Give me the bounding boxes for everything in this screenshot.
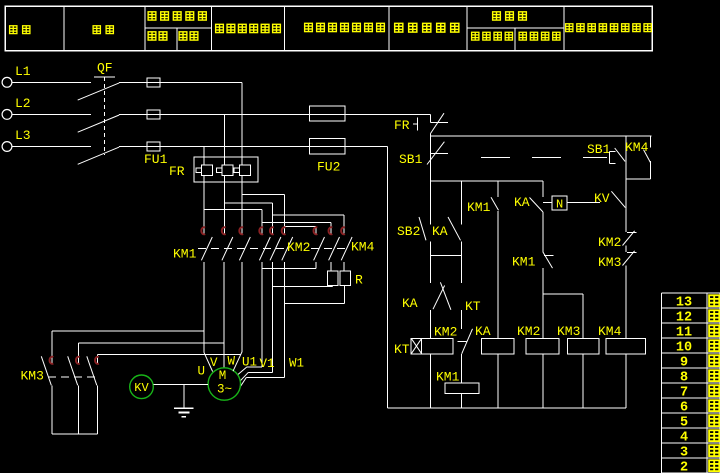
svg-text:KM1: KM1 bbox=[512, 255, 536, 270]
svg-text:KA: KA bbox=[402, 296, 418, 311]
svg-text:L2: L2 bbox=[15, 96, 31, 111]
svg-text:3~: 3~ bbox=[217, 383, 232, 397]
svg-text:SB2: SB2 bbox=[397, 224, 420, 239]
svg-text:M: M bbox=[219, 369, 227, 383]
svg-text:KM3: KM3 bbox=[557, 324, 580, 339]
svg-text:10: 10 bbox=[676, 341, 692, 356]
svg-text:KM2: KM2 bbox=[287, 240, 310, 255]
svg-text:KM1: KM1 bbox=[436, 370, 460, 385]
svg-text:KM3: KM3 bbox=[598, 255, 621, 270]
svg-text:6: 6 bbox=[680, 401, 688, 416]
svg-text:3: 3 bbox=[680, 446, 688, 461]
svg-text:N: N bbox=[556, 198, 563, 212]
svg-text:R: R bbox=[355, 273, 363, 288]
svg-text:8: 8 bbox=[680, 371, 688, 386]
svg-text:V1: V1 bbox=[260, 357, 275, 371]
svg-text:9: 9 bbox=[680, 356, 688, 371]
svg-text:SB1: SB1 bbox=[399, 152, 423, 167]
svg-text:U1: U1 bbox=[242, 356, 257, 370]
svg-text:FU1: FU1 bbox=[144, 152, 168, 167]
svg-text:KM1: KM1 bbox=[173, 247, 197, 262]
svg-text:L3: L3 bbox=[15, 128, 31, 143]
svg-text:KM1: KM1 bbox=[467, 200, 491, 215]
svg-text:KM2: KM2 bbox=[517, 324, 540, 339]
svg-text:KT: KT bbox=[465, 299, 481, 314]
svg-text:L1: L1 bbox=[15, 64, 31, 79]
svg-text:KM4: KM4 bbox=[351, 240, 375, 255]
svg-text:QF: QF bbox=[97, 61, 113, 76]
svg-text:12: 12 bbox=[676, 311, 692, 326]
svg-text:KA: KA bbox=[514, 195, 530, 210]
svg-text:KM4: KM4 bbox=[598, 324, 622, 339]
svg-text:W1: W1 bbox=[289, 357, 304, 371]
svg-text:KA: KA bbox=[432, 224, 448, 239]
svg-text:KM3: KM3 bbox=[21, 369, 44, 384]
svg-text:V: V bbox=[210, 356, 218, 370]
svg-text:KM2: KM2 bbox=[434, 325, 457, 340]
svg-text:FR: FR bbox=[394, 118, 410, 133]
svg-text:U: U bbox=[198, 365, 206, 379]
svg-text:5: 5 bbox=[680, 416, 688, 431]
svg-text:KV: KV bbox=[594, 191, 610, 206]
svg-text:7: 7 bbox=[680, 386, 688, 401]
svg-text:KM2: KM2 bbox=[598, 235, 621, 250]
svg-text:13: 13 bbox=[676, 296, 692, 311]
svg-text:FR: FR bbox=[169, 164, 185, 179]
svg-text:11: 11 bbox=[676, 326, 692, 341]
svg-text:SB1: SB1 bbox=[587, 142, 611, 157]
svg-text:KT: KT bbox=[394, 342, 410, 357]
svg-text:2: 2 bbox=[680, 461, 688, 473]
svg-text:W: W bbox=[228, 355, 236, 369]
svg-text:KV: KV bbox=[134, 381, 149, 395]
svg-text:KA: KA bbox=[475, 324, 491, 339]
svg-text:FU2: FU2 bbox=[317, 160, 340, 175]
svg-text:KM4: KM4 bbox=[625, 140, 649, 155]
svg-text:4: 4 bbox=[680, 431, 688, 446]
